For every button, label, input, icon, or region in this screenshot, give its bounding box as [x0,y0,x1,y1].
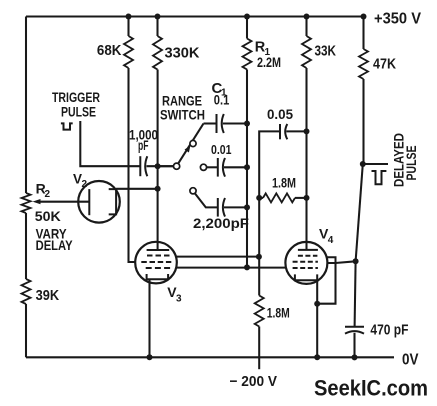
tube V4 [285,242,327,284]
node 470pF on 0V rail [352,354,358,360]
potentiometer R2 50K [22,193,31,213]
wire 68K column to V3 grid [129,68,136,262]
svg-text:2.2M: 2.2M [257,54,281,70]
node 1.8M left [256,195,262,201]
capacitor 2200pF [195,193,218,207]
wire left rail middle [25,213,27,279]
wire left rail upper [25,17,27,194]
node top rail 68K [126,14,132,20]
svg-text:SWITCH: SWITCH [160,108,205,123]
resistor 1.8M vertical [255,296,264,327]
node 0.01 bus [244,164,250,170]
V2 plate bracket [109,189,116,214]
node 1.8M right [304,195,310,201]
wire output tab [363,163,388,165]
resistor 1.8M horizontal [259,197,263,199]
svg-text:DELAY: DELAY [36,237,74,253]
V3 grid row 2 [141,261,171,263]
trigger pulse waveform [61,123,73,129]
capacitor 470pF [345,326,364,328]
range switch contact 0.01 [200,164,206,170]
node 0.1 bus [244,121,250,127]
wire output column down to V4 g2 node [356,164,363,261]
svg-text:0.1: 0.1 [214,93,230,108]
node delayed pulse tap [360,161,366,167]
wire V2 wiper arm to pot [40,201,89,203]
V3 cathode bracket [147,274,169,279]
svg-text:470 pF: 470 pF [370,323,408,339]
wire top +350V rail [26,15,364,17]
V2 cathode line [88,189,90,215]
tube V2 [78,181,120,223]
svg-text:PULSE: PULSE [404,146,419,181]
resistor 47K [362,17,364,50]
V4 g2 bracket [327,257,336,263]
node V4 cathode junction [314,301,320,307]
svg-text:− 200 V: − 200 V [230,374,278,390]
V4 cathode bracket [295,274,317,280]
svg-text:RANGE: RANGE [162,94,202,109]
svg-text:PULSE: PULSE [61,105,96,120]
wire R1 column (cap bus) [246,70,248,268]
wire V2 plate to 330K column [116,188,158,190]
wire -200V stub [258,327,260,370]
node V3 cathode on rail [147,354,153,360]
svg-text:SeekIC.com: SeekIC.com [314,376,428,401]
svg-text:50K: 50K [35,208,61,224]
node V4 g2 / 470pF [353,258,359,264]
wire 330K column to V3 plate [157,70,159,251]
svg-text:2,200pF: 2,200pF [193,215,249,231]
wire V3 cathode to 0V [148,279,150,357]
node top rail R1 [244,14,250,20]
resistor 68K [127,17,129,37]
V4 plate bar [298,249,318,251]
svg-text:+350 V: +350 V [374,11,422,28]
capacitor C1 0.1 [204,122,217,124]
wire bottom 0V rail [26,356,394,358]
V4 grid row 1 [298,255,318,257]
node V3 plate wire / left column [256,254,262,260]
svg-text:0V: 0V [402,352,419,369]
range switch arm [178,124,204,164]
node V4 cathode on rail [314,354,320,360]
wire 47K to output node [362,79,364,164]
node 0.05 right [304,128,310,134]
wire V3 lower (to V4 grid) [176,267,286,269]
wire trigger input lead [80,121,140,166]
node 1000pF / switch pole junction [155,163,161,169]
wire V4 g2 to output column [336,261,356,263]
svg-text:1.8M: 1.8M [272,175,296,191]
svg-text:1.8M: 1.8M [267,305,290,321]
delayed pulse waveform [372,171,387,184]
wire down to 470pF [355,261,356,326]
wire V3 upper (plate node to left column) [176,256,259,258]
svg-text:3: 3 [176,294,182,305]
capacitor 0.01 [207,166,218,168]
resistor R1 2.2M [246,17,248,39]
node 2200pF bus [244,204,250,210]
svg-text:4: 4 [328,235,334,246]
V3 grid row 1 [147,255,170,257]
svg-text:33K: 33K [315,44,337,60]
resistor 39K [22,279,31,304]
svg-text:68K: 68K [97,43,122,59]
V4 grid row 3 [293,267,318,269]
tube V3 [135,242,177,284]
node top rail 330K [155,14,161,20]
node top rail 33K [304,14,310,20]
V3 grid row 3 [146,267,172,269]
resistor 33K [305,17,307,37]
svg-text:330K: 330K [165,45,201,61]
wire left rail lower [25,304,27,357]
wire 33K column to V4 plate [305,68,307,250]
svg-text:39K: 39K [36,288,60,304]
range switch arrow [185,145,191,152]
svg-text:0.01: 0.01 [211,142,232,157]
node R1 column bottom [244,264,250,270]
V3 plate bar [147,249,170,251]
wire 0.05/1.8M left column [259,131,280,295]
capacitor 0.05 [279,124,281,139]
node V2 plate junction [155,186,161,192]
wire 1000pF to node [147,165,174,167]
svg-text:0.05: 0.05 [267,106,293,122]
range switch pole contact [174,163,180,169]
arrow pot wiper [33,199,41,204]
wire V4 g2 down to cathode node [317,263,335,304]
node top rail 47K [361,14,367,20]
svg-text:pF: pF [138,138,149,153]
V4 grid row 2 [293,261,318,263]
capacitor 1000pF [139,156,141,176]
range switch contact 0.1 [190,140,196,146]
svg-text:2: 2 [82,179,88,190]
wire node to switch pole [158,165,174,167]
svg-text:TRIGGER: TRIGGER [52,90,100,105]
svg-text:2: 2 [45,189,51,200]
svg-text:47K: 47K [373,57,396,73]
range switch contact 2200pF [190,188,196,194]
resistor 330K [156,17,158,37]
wire V4 cathode down [316,280,318,357]
